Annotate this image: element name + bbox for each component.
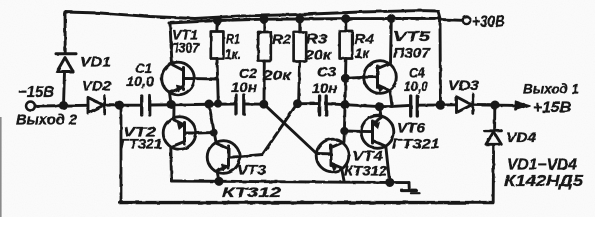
wire: VD3 cathode to output arrow: [474, 103, 517, 106]
wire: common emitter rail: [172, 181, 410, 183]
diode VD4: [485, 105, 502, 202]
wire: C4 right to VD3 anode: [418, 103, 456, 106]
node: VD4 junction: [492, 102, 498, 108]
node: VT1 emitter / VT2 emitter junction: [168, 101, 174, 107]
node: VT3 collector junction: [206, 101, 212, 107]
node: junction to bottom return rail: [116, 102, 122, 108]
wire: VT2 base tee into VT3 collector line: [212, 131, 215, 134]
node: +30V rail junction R3: [297, 16, 303, 22]
wire: C1 to C2 (left totem output node): [151, 104, 236, 105]
wire: stub to +30V terminal: [440, 18, 462, 22]
node: VT6 base branch: [342, 128, 347, 133]
resistor R4: [340, 19, 353, 79]
diode VD2: [88, 96, 105, 114]
wire: cross diagonal to VT4 base: [264, 104, 317, 153]
wire: right vertical from top rail down to C4/VD3 node: [438, 11, 441, 105]
node: VT6 collector junction: [387, 179, 393, 185]
node: VT2 base tee: [211, 130, 216, 135]
transistor VT5: [364, 19, 397, 106]
node: elbow C2/R2/cross: [261, 101, 267, 107]
node: x345 vertical crossing: [342, 102, 348, 108]
wire: C3 right to C4 left (right totem output node): [327, 104, 410, 107]
capacitor C4: [411, 96, 418, 116]
wire: elbow to C3 left: [298, 102, 319, 105]
resistor R2: [258, 19, 271, 104]
wire: R1 to VT1 base and down to output wire: [194, 77, 218, 80]
output 1 arrow: [515, 101, 530, 110]
node: +30V rail junction R4: [343, 16, 349, 22]
wire: top feedback rail from VD1 cathode to right vertical: [65, 11, 438, 19]
wire: VT5 base lead feed: [346, 77, 365, 78]
scan edge artifact: [0, 117, 2, 217]
wire: cross diagonal from VT3 base: [240, 104, 298, 157]
transistor VT3: [207, 104, 240, 181]
capacitor C2: [236, 95, 244, 114]
transistor VT2: [163, 105, 213, 181]
node: +30V rail junction R2: [261, 16, 267, 22]
ground: [402, 183, 420, 194]
wire: bottom return rail: [120, 105, 123, 201]
diode VD1: [56, 12, 76, 106]
resistor R1: [211, 21, 224, 80]
wire: C2 right to cross elbow: [245, 103, 265, 106]
node: VT3 emitter junction: [216, 178, 222, 184]
node: VD1 junction on output wire: [60, 102, 66, 108]
wire: output2 terminal to VD2 anode: [35, 104, 88, 108]
terminal output 2: [26, 102, 35, 111]
wire: R4/VT5 base node down to wire and VT4 collector: [344, 78, 346, 142]
capacitor C3: [320, 96, 327, 115]
node: R1/VT1-base lead crossing: [215, 101, 220, 106]
node: VT6 emitter junction: [376, 104, 382, 110]
node: +30V rail junction VT5 collector: [388, 16, 394, 22]
node: elbow C3/R3/cross: [295, 101, 301, 107]
diode VD3: [457, 94, 473, 113]
node: VT5 base junction: [342, 75, 348, 81]
wire: VD2 cathode to C1: [105, 104, 141, 107]
capacitor C1: [142, 96, 150, 115]
node: +30V rail junction R1: [215, 18, 221, 24]
node: C4/right-vertical/VD3 junction: [437, 102, 444, 109]
wire: VT6 base lead feed: [344, 130, 362, 133]
scan noise overlay: [0, 0, 1, 1]
transistor VT4: [316, 139, 349, 181]
transistor VT1: [162, 23, 195, 104]
resistor R3: [294, 19, 307, 104]
transistor VT6: [361, 107, 394, 181]
terminal +30V: [463, 17, 471, 25]
wire: +30V rail over R1-R4: [169, 18, 439, 23]
